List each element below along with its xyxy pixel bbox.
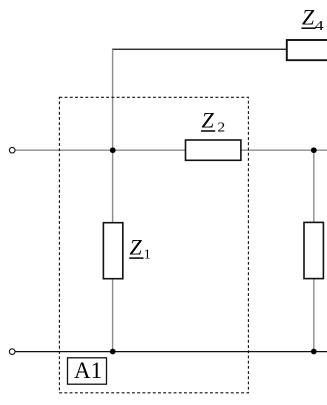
wire bottom horizontal (left terminal to right edge)	[15, 351, 327, 353]
terminal bottom-left (open circle)	[9, 349, 15, 355]
node junction bottom-left	[110, 349, 116, 355]
wire middle horizontal (Z2 to right edge)	[241, 149, 327, 151]
node junction middle-left	[110, 147, 116, 153]
svg-text:4: 4	[315, 18, 324, 33]
wire top horizontal (corner to Z4)	[112, 48, 286, 50]
impedance Z2 (horizontal box)	[186, 140, 241, 160]
wire left vertical (top wire down to Z1)	[112, 49, 114, 222]
label box A1	[68, 358, 107, 384]
node junction middle-right	[311, 147, 317, 153]
impedance right branch (vertical box)	[304, 222, 323, 278]
svg-text:2: 2	[217, 120, 225, 135]
svg-text:Z: Z	[302, 5, 315, 30]
wire left vertical (Z1 to bottom node)	[112, 279, 114, 352]
node junction bottom-right	[311, 349, 317, 355]
svg-text:A1: A1	[74, 358, 102, 383]
wire right vertical (right box to bottom node)	[313, 279, 315, 352]
impedance Z4 (box, cut off at right edge)	[287, 40, 327, 60]
wire right vertical (middle node to right box)	[313, 150, 315, 222]
impedance Z1 (vertical box)	[103, 223, 122, 279]
label Z_4	[301, 5, 323, 34]
svg-text:1: 1	[144, 248, 151, 263]
dashed enclosure box A1	[59, 97, 248, 393]
wire middle horizontal (left terminal to Z2)	[15, 149, 185, 151]
svg-text:Z: Z	[202, 107, 215, 132]
label Z_2	[201, 107, 225, 135]
svg-text:Z: Z	[130, 235, 143, 260]
terminal middle-left (open circle)	[9, 147, 15, 153]
label Z_1	[129, 235, 150, 263]
